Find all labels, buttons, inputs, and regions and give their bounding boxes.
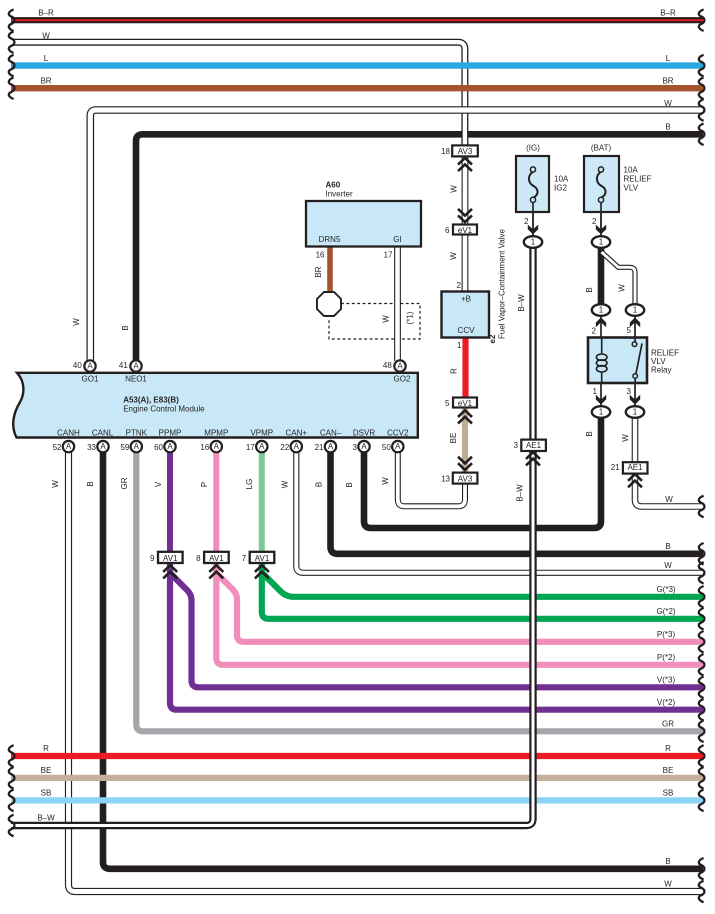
svg-text:AE1: AE1 [526, 441, 542, 450]
svg-text:21: 21 [611, 463, 620, 472]
wire P(*3) (AV1 8 to right edge) [217, 574, 703, 642]
svg-text:W: W [664, 99, 672, 108]
svg-text:BE: BE [449, 433, 458, 444]
connector box AE1 pin 3 [521, 440, 546, 451]
pin circle A (ECM 16 MPMP) [211, 441, 222, 452]
svg-text:GR: GR [662, 720, 674, 729]
svg-text:P(*3): P(*3) [657, 630, 676, 639]
svg-text:1: 1 [633, 306, 638, 315]
svg-text:2: 2 [592, 217, 597, 226]
svg-text:SB: SB [41, 789, 52, 798]
arrow into oval (relay pin 1) [596, 395, 606, 405]
svg-text:W: W [281, 480, 290, 488]
wire V(*2) (AV1 9 to right edge) [170, 563, 703, 710]
svg-text:BR: BR [40, 76, 51, 85]
connector box eV1 pin 5 [453, 398, 477, 408]
svg-text:A60: A60 [326, 180, 341, 189]
svg-text:MPMP: MPMP [204, 429, 228, 438]
svg-text:L: L [666, 54, 671, 63]
wire P(*2) (AV1 8 to right edge) [216, 563, 703, 665]
svg-text:P: P [200, 482, 209, 487]
chevron (toward eV1 6) [458, 209, 472, 222]
chevron (toward AV3 18) [458, 158, 472, 171]
wire V (ECM PPMP pin 60 to AV1 9) [167, 452, 173, 552]
connector box AV3 pin 13 [453, 473, 478, 484]
svg-text:59: 59 [120, 443, 129, 452]
wire B (ECM CAN- pin 21 to B bus) [331, 452, 704, 554]
svg-text:PPMP: PPMP [159, 429, 182, 438]
svg-text:1: 1 [633, 408, 638, 417]
wire B bus (top, to ECM NEO1) [136, 134, 703, 361]
svg-text:2: 2 [524, 217, 529, 226]
svg-text:1: 1 [599, 306, 604, 315]
svg-text:Relay: Relay [651, 366, 671, 375]
svg-text:B: B [665, 542, 670, 551]
pin circle A (ECM 48 GO2) [394, 360, 405, 371]
pin circle A (ECM 21 CAN-) [325, 441, 336, 452]
svg-text:CANH: CANH [57, 429, 80, 438]
svg-text:(IG): (IG) [526, 144, 540, 153]
svg-text:B: B [585, 431, 594, 436]
wire G(*3) (AV1 7 to right edge) [262, 573, 703, 597]
fuse IG element [529, 172, 538, 198]
svg-text:CAN+: CAN+ [286, 429, 308, 438]
svg-text:6: 6 [445, 226, 450, 235]
svg-text:60: 60 [154, 443, 163, 452]
wire W (ECM CCV2 pin 50 to AV3 13) [398, 452, 465, 506]
wire LG (ECM VPMP pin 17 to AV1 7) [259, 452, 265, 552]
svg-text:B–W: B–W [516, 484, 525, 502]
svg-text:AE1: AE1 [627, 463, 643, 472]
svg-text:22: 22 [280, 443, 289, 452]
svg-text:R: R [43, 744, 49, 753]
svg-text:A53(A), E83(B): A53(A), E83(B) [123, 396, 179, 405]
svg-text:18: 18 [441, 147, 450, 156]
svg-text:7: 7 [242, 554, 247, 563]
wire G(*2) (AV1 7 to right edge) [262, 563, 703, 619]
svg-text:W: W [450, 185, 459, 193]
svg-text:1: 1 [593, 387, 598, 396]
svg-text:W: W [42, 32, 50, 41]
svg-text:W: W [72, 318, 81, 326]
svg-text:A: A [259, 442, 265, 451]
svg-text:B: B [665, 123, 670, 132]
svg-text:A: A [294, 442, 300, 451]
wire W (oval to AE1 21) [632, 418, 639, 463]
svg-text:BE: BE [41, 766, 52, 775]
ECM A53(A) E83(B) box [13, 373, 418, 438]
chevron (toward AV1 8) [209, 565, 223, 578]
svg-text:(*1): (*1) [406, 311, 415, 324]
svg-text:VPMP: VPMP [250, 429, 273, 438]
wire BR bus (top) [11, 85, 703, 91]
pin circle A (ECM 41 NEO1) [130, 360, 141, 371]
wire L bus (top) [11, 62, 703, 68]
svg-text:RELIEF: RELIEF [624, 175, 652, 184]
wire B (fuse BAT to relay junction) [598, 248, 605, 304]
svg-text:L: L [44, 54, 49, 63]
relay coil [596, 354, 607, 360]
connector box eV1 pin 6 [453, 225, 477, 235]
wire R bus (bottom) [11, 753, 703, 759]
svg-text:A: A [361, 442, 367, 451]
svg-text:AV3: AV3 [458, 147, 473, 156]
wire W (branch from B to relay pin 5 oval) [602, 252, 636, 304]
connector box AV1 pin 7 [250, 552, 275, 563]
svg-text:NEO1: NEO1 [125, 375, 147, 384]
svg-text:21: 21 [315, 443, 324, 452]
svg-text:A: A [214, 442, 220, 451]
wire P (ECM MPMP pin 16 to AV1 8) [213, 452, 219, 552]
svg-text:V(*2): V(*2) [657, 698, 676, 707]
squiggle wire-break symbols right edge [699, 9, 705, 902]
pin letters A [66, 362, 404, 452]
svg-text:40: 40 [73, 361, 82, 370]
svg-text:DSVR: DSVR [353, 429, 375, 438]
pin circle A (ECM 60 PPMP) [164, 441, 175, 452]
arrow into oval (relay pin 3) [630, 395, 640, 405]
svg-text:e2: e2 [488, 334, 497, 343]
svg-text:DRN5: DRN5 [319, 235, 341, 244]
svg-text:A: A [133, 362, 139, 371]
fuse BAT element [597, 172, 606, 198]
wire stub (oval to relay pin 2) [600, 316, 602, 338]
svg-text:PTNK: PTNK [126, 429, 148, 438]
wire B-W (fuse IG to AE1 3 to B-W bus) [11, 248, 533, 826]
wire W (AV3 18 to eV1 6) [462, 156, 469, 225]
svg-text:B: B [345, 482, 354, 487]
svg-text:B: B [121, 325, 130, 330]
svg-text:GO1: GO1 [82, 375, 99, 384]
svg-text:LG: LG [245, 479, 254, 490]
wire stub (relay pin 5 to oval) [634, 316, 636, 338]
arrow into oval (fuse IG pin 2) [528, 225, 538, 235]
svg-text:A: A [395, 442, 401, 451]
arrow into oval (fuse BAT pin 2) [596, 225, 606, 235]
svg-text:G(*3): G(*3) [656, 585, 675, 594]
svg-text:10A: 10A [554, 175, 569, 184]
chevron (toward AV1 9) [163, 565, 177, 578]
chevron (toward AE1 21) [628, 474, 642, 487]
svg-text:W: W [664, 561, 672, 570]
pin circle A (ECM 40 GO1) [84, 360, 95, 371]
svg-text:CCV2: CCV2 [387, 429, 409, 438]
wire stub (fuse BAT to oval) [600, 212, 602, 236]
svg-text:A: A [100, 442, 106, 451]
wire W (ECM CANH pin 52 to bottom W bus) [69, 452, 704, 892]
wire stub (relay pin 3 to oval) [634, 382, 636, 406]
svg-text:8: 8 [196, 554, 201, 563]
svg-text:5: 5 [445, 399, 450, 408]
svg-text:B: B [315, 482, 324, 487]
squiggle wire-break symbols left edge [9, 9, 15, 836]
wire stub (relay pin 1 to oval) [600, 382, 602, 406]
svg-text:Fuel Vapor–Containment Valve: Fuel Vapor–Containment Valve [498, 228, 507, 339]
wire V(*3) (AV1 9 to right edge) [171, 574, 704, 688]
arrow up into oval (relay pin 5) [630, 317, 640, 327]
connector box AV1 pin 8 [204, 552, 229, 563]
svg-text:3: 3 [353, 443, 358, 452]
svg-text:41: 41 [119, 361, 128, 370]
connector oval 1 (relay pin 2) [592, 304, 610, 316]
wire W (ECM CAN+ pin 22 to W bus) [296, 452, 703, 573]
svg-text:+B: +B [461, 295, 471, 304]
svg-text:2: 2 [592, 327, 597, 336]
arrow up into oval (relay pin 2) [596, 317, 606, 327]
svg-text:A: A [397, 362, 403, 371]
svg-text:1: 1 [599, 238, 604, 247]
svg-text:AV1: AV1 [209, 554, 224, 563]
connector oval 1 (relay pin 1) [592, 406, 610, 418]
wire B (ECM DSVR pin 3 to relay pin 1) [364, 417, 601, 528]
pin circle A (ECM 17 VPMP) [256, 441, 267, 452]
wire BE bus (bottom) [11, 775, 703, 781]
fuse IG box [516, 156, 549, 212]
CCV box (e2 Fuel Vapor-Containment Valve) [442, 292, 490, 338]
svg-text:V: V [154, 481, 163, 487]
chevron (toward AE1 3) [526, 452, 540, 465]
pin circle A (ECM 3 DSVR) [358, 441, 369, 452]
relay RELIEF VLV box [588, 338, 647, 384]
svg-text:48: 48 [383, 361, 392, 370]
connector oval 1 (below fuse IG) [524, 236, 542, 248]
svg-text:1: 1 [531, 238, 536, 247]
svg-text:B–W: B–W [517, 294, 526, 312]
svg-text:16: 16 [200, 443, 209, 452]
fuse BAT box [584, 156, 619, 212]
svg-text:(BAT): (BAT) [591, 144, 612, 153]
svg-text:eV1: eV1 [458, 226, 473, 235]
svg-text:B–R: B–R [38, 8, 54, 17]
connector oval 1 (relay pin 3) [626, 406, 644, 418]
svg-text:BR: BR [314, 266, 323, 277]
svg-text:33: 33 [87, 443, 96, 452]
chevron (toward AV3 13) [458, 457, 472, 470]
wire W (AE1 21 to right edge) [635, 472, 703, 507]
svg-text:CANL: CANL [92, 429, 114, 438]
svg-text:3: 3 [627, 387, 632, 396]
svg-text:16: 16 [316, 251, 325, 260]
svg-text:B: B [86, 481, 95, 486]
svg-text:Engine Control Module: Engine Control Module [123, 404, 205, 413]
wire W (eV1 6 to CCV +B pin 2) [462, 234, 469, 292]
wire BR (inverter DRN5 pin 16 to shield octagon) [327, 247, 333, 297]
svg-text:1: 1 [599, 408, 604, 417]
chevron (toward AV1 7) [255, 565, 269, 578]
svg-text:A: A [328, 442, 334, 451]
wire W bus (top, to connector AV3 pin 18) [11, 42, 465, 146]
wire W (inverter GI pin 17 to ECM GO2, shielded) [394, 247, 401, 362]
svg-text:CAN–: CAN– [320, 429, 342, 438]
wire stub (fuse IG to oval) [532, 212, 534, 236]
pin circle A (ECM 33 CANL) [97, 441, 108, 452]
svg-text:10A: 10A [624, 166, 639, 175]
shield ground octagon [317, 292, 341, 316]
svg-text:BE: BE [663, 766, 674, 775]
wire B (ECM CANL pin 33 to bottom B bus) [103, 452, 703, 869]
pin circle A (ECM 52 CANH) [63, 441, 74, 452]
pin circle A (ECM 59 PTNK) [131, 441, 142, 452]
inverter A60 box [306, 201, 421, 247]
svg-text:GO2: GO2 [394, 375, 411, 384]
connector box AV3 pin 18 [452, 145, 478, 156]
svg-text:W: W [621, 434, 630, 442]
svg-text:G(*2): G(*2) [656, 607, 675, 616]
svg-text:2: 2 [457, 281, 462, 290]
wire R (CCV pin 1 to eV1 5) [462, 337, 468, 398]
svg-text:A: A [66, 442, 72, 451]
svg-text:17: 17 [384, 251, 393, 260]
svg-text:BR: BR [662, 76, 673, 85]
svg-text:W: W [382, 315, 391, 323]
svg-text:13: 13 [441, 474, 450, 483]
svg-text:W: W [665, 495, 673, 504]
svg-text:AV1: AV1 [163, 554, 178, 563]
pin circle A (ECM 50 CCV2) [392, 441, 403, 452]
relay switch [635, 338, 642, 383]
svg-text:17: 17 [246, 443, 255, 452]
svg-text:W: W [618, 284, 627, 292]
svg-text:P(*2): P(*2) [657, 653, 676, 662]
connector box AV1 pin 9 [158, 552, 183, 563]
svg-text:B–W: B–W [37, 814, 55, 823]
svg-text:R: R [665, 744, 671, 753]
svg-text:B: B [585, 287, 594, 292]
svg-text:R: R [450, 368, 459, 374]
svg-text:W: W [381, 477, 390, 485]
svg-text:52: 52 [53, 443, 62, 452]
svg-text:A: A [87, 362, 93, 371]
svg-text:9: 9 [150, 554, 155, 563]
svg-text:B: B [665, 857, 670, 866]
svg-text:Inverter: Inverter [326, 190, 353, 199]
wire W bus 2 (to ECM GO1) [90, 110, 703, 361]
wire BE (eV1 5 to AV3 13) [462, 407, 468, 473]
svg-text:B–R: B–R [660, 8, 676, 17]
svg-text:GI: GI [393, 235, 401, 244]
svg-text:3: 3 [514, 441, 519, 450]
connector box AE1 pin 21 [623, 462, 648, 473]
oval numbers [531, 238, 638, 417]
svg-text:AV3: AV3 [458, 474, 473, 483]
svg-text:GR: GR [120, 477, 129, 489]
svg-text:5: 5 [627, 326, 632, 335]
connector oval 1 (relay pin 5) [626, 304, 644, 316]
chevron (toward eV1 5) [458, 410, 472, 423]
shield dashed box (*1) [329, 304, 420, 340]
svg-text:A: A [134, 442, 140, 451]
svg-text:V(*3): V(*3) [657, 676, 676, 685]
connector oval 1 (below fuse BAT) [592, 236, 610, 248]
svg-text:50: 50 [382, 443, 391, 452]
svg-text:VLV: VLV [624, 184, 639, 193]
svg-text:W: W [51, 480, 60, 488]
svg-text:1: 1 [457, 341, 462, 350]
pin circle A (ECM 22 CAN+) [291, 441, 302, 452]
svg-text:CCV: CCV [458, 326, 476, 335]
svg-text:SB: SB [663, 789, 674, 798]
wire GR (ECM PTNK pin 59 to GR bus) [136, 452, 703, 731]
svg-text:eV1: eV1 [458, 399, 473, 408]
wire B-R bus (top) [11, 17, 703, 23]
svg-text:A: A [167, 442, 173, 451]
svg-text:IG2: IG2 [554, 184, 567, 193]
wire SB bus (bottom) [11, 797, 703, 803]
svg-text:AV1: AV1 [255, 554, 270, 563]
svg-text:W: W [449, 252, 458, 260]
svg-text:W: W [664, 880, 672, 889]
